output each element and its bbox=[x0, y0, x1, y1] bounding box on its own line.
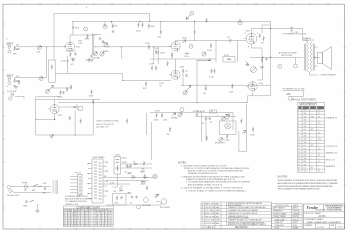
svg-text:R1 0111 68K 10 2 250V: R1 0111 68K 10 2 250V bbox=[64, 213, 87, 215]
T1 left stubs bbox=[88, 164, 92, 199]
component chart header sep bbox=[63, 211, 113, 213]
title bottom cells bbox=[316, 224, 336, 229]
svg-text:PREAMP V1: PREAMP V1 bbox=[326, 117, 338, 120]
component chart title sep bbox=[63, 208, 113, 210]
wire foot switch bbox=[283, 90, 304, 96]
circle can cap bbox=[103, 25, 107, 29]
svg-text:1 OF 1: 1 OF 1 bbox=[337, 226, 344, 228]
diode arrow bbox=[243, 131, 247, 134]
input 2 extra resistor bbox=[18, 80, 20, 85]
node rail junction 2 bbox=[139, 21, 140, 22]
wire vibrato bus bbox=[181, 84, 271, 86]
wire V2 plate to coupling bbox=[176, 41, 246, 42]
network box bbox=[49, 60, 56, 82]
component chart frame bbox=[63, 206, 113, 226]
svg-text:1.4V: 1.4V bbox=[78, 43, 83, 45]
capacitor C7 bass bbox=[102, 40, 104, 43]
capacitor C11 bbox=[196, 113, 198, 116]
boxed network bbox=[223, 57, 235, 63]
bass pot bbox=[100, 52, 104, 56]
resistor R9 bbox=[148, 24, 150, 29]
svg-text:AMP CHASSIS: AMP CHASSIS bbox=[273, 207, 285, 210]
bias box resistor bbox=[116, 196, 118, 201]
wire input 2 bbox=[14, 77, 46, 79]
capacitor C8 coupling bbox=[230, 39, 232, 42]
resistor R25 bbox=[167, 61, 169, 66]
svg-text:SERVICE PERSONNEL ALTER TRAN: SERVICE PERSONNEL ALTER TRANSFORMER SERV… bbox=[278, 185, 334, 188]
tp3 leader arrow bbox=[186, 15, 190, 20]
svg-text:AND BE COME STOCK SUPPLY IF A: AND BE COME STOCK SUPPLY IF ADJUSTMENT B… bbox=[188, 170, 243, 173]
resistor R51 bbox=[143, 177, 148, 179]
resistor R14 grid bbox=[210, 43, 212, 48]
svg-text:220K: 220K bbox=[136, 31, 141, 33]
svg-text:WITH VOLT CONTROLS ATTENUATED: WITH VOLT CONTROLS ATTENUATED VOLTAGE AL… bbox=[184, 167, 249, 170]
revision dates bbox=[205, 203, 220, 225]
svg-text:AA764: AA764 bbox=[293, 207, 298, 210]
svg-text:Fender: Fender bbox=[307, 206, 319, 210]
resistor R56 bbox=[145, 82, 147, 87]
input jack 2 bbox=[7, 77, 10, 80]
svg-text:TREB: TREB bbox=[102, 43, 108, 45]
wire B plus out bbox=[121, 163, 152, 165]
test point power bbox=[137, 205, 141, 209]
svg-text:12-7-64: 12-7-64 bbox=[317, 226, 325, 228]
ground tremolo bbox=[49, 136, 53, 138]
svg-text:TO VIBRATO FOOT SW.: TO VIBRATO FOOT SW. bbox=[283, 87, 306, 90]
svg-text:AND DEFINITIONS OF QUALIFIED P: AND DEFINITIONS OF QUALIFIED PARTS REFER… bbox=[278, 182, 339, 185]
svg-text:13: 13 bbox=[298, 148, 300, 150]
pilot lamp X bbox=[154, 175, 157, 178]
svg-text:NOMINAL OTHERWISE NOTED: NOMINAL OTHERWISE NOTED bbox=[188, 172, 218, 175]
resistor R49 bbox=[146, 186, 148, 191]
AC-DC table rows bbox=[298, 112, 325, 170]
resistor R28 bbox=[286, 93, 291, 95]
wire osc mid bus bbox=[195, 115, 236, 117]
output transformer T2 primary bbox=[307, 42, 309, 72]
svg-text:ALL DC 25,000 O/V: ALL DC 25,000 O/V bbox=[97, 123, 115, 126]
wire arrow stub bbox=[197, 59, 211, 61]
resistor R29 bbox=[60, 90, 62, 95]
capacitor C19 bbox=[185, 74, 187, 77]
wire V1 plate up bbox=[69, 35, 71, 42]
svg-text:100K: 100K bbox=[160, 53, 165, 55]
node rail junction 3 bbox=[194, 21, 195, 22]
svg-text:R3 0113 1M 10 2 250V: R3 0113 1M 10 2 250V bbox=[64, 218, 88, 220]
svg-text:7025 X2: 7025 X2 bbox=[293, 219, 299, 221]
wire tremolo mid leg bbox=[74, 111, 76, 135]
wire long lower bus bbox=[58, 102, 248, 104]
resistor R45 bbox=[127, 172, 132, 174]
svg-text:FUSE: FUSE bbox=[22, 183, 28, 185]
wire tremolo right bbox=[59, 104, 77, 110]
rectifier top cap bbox=[116, 155, 119, 157]
test point 1 bbox=[84, 27, 88, 31]
svg-text:C3 2504 .022 20 600V: C3 2504 .022 20 600V bbox=[89, 218, 113, 220]
svg-text:270K: 270K bbox=[207, 50, 212, 52]
wire tremolo cathode bbox=[36, 114, 55, 120]
svg-text:6V6GT: 6V6GT bbox=[293, 222, 298, 224]
AC-DC header dark band 1 bbox=[298, 106, 301, 109]
bias resistor R47 bbox=[119, 190, 124, 192]
wire screen drop to V3 bbox=[262, 25, 271, 33]
svg-text:VIBRATO OFF: VIBRATO OFF bbox=[65, 203, 79, 206]
wire R12 bbox=[160, 22, 162, 30]
resistor R39 bbox=[206, 136, 208, 141]
svg-text:SPEAKER 8: SPEAKER 8 bbox=[273, 210, 282, 213]
wire foot sw riser bbox=[239, 104, 247, 152]
svg-text:DRAWN: DRAWN bbox=[305, 224, 313, 227]
resistor R7 bbox=[138, 23, 140, 28]
svg-text:16: 16 bbox=[298, 158, 300, 160]
svg-text:120: 120 bbox=[304, 132, 307, 134]
svg-text:100K: 100K bbox=[85, 39, 90, 41]
svg-text:INPUT: INPUT bbox=[7, 76, 14, 78]
svg-text:215: 215 bbox=[304, 161, 307, 163]
svg-text:OSC: OSC bbox=[114, 203, 119, 205]
node junction vib bbox=[270, 57, 271, 58]
svg-text:100K: 100K bbox=[149, 64, 154, 66]
wire B+ riser power bbox=[151, 122, 153, 160]
node OT secondary tap bbox=[314, 57, 316, 59]
resistor R43 bbox=[143, 161, 145, 166]
wire plate node bbox=[70, 34, 97, 36]
pot intensity bbox=[219, 137, 223, 141]
pentode V3 6V6 bbox=[245, 33, 257, 44]
revision descriptions bbox=[228, 202, 266, 226]
wiper arrow osc bbox=[173, 113, 176, 116]
node tremolo cathode bbox=[54, 119, 55, 120]
border tick marks left bbox=[2, 24, 4, 208]
fuse on plate line bbox=[291, 27, 293, 34]
svg-text:350: 350 bbox=[304, 158, 307, 160]
heater pin strip bbox=[78, 175, 83, 196]
svg-text:18: 18 bbox=[298, 164, 300, 166]
revision table rows bbox=[201, 205, 271, 225]
svg-text:R6 0116 22K 10 2 250V: R6 0116 22K 10 2 250V bbox=[64, 225, 88, 227]
revision letters bbox=[202, 203, 204, 225]
bias resistor R48 bbox=[127, 192, 132, 194]
resistor R6 dropping bbox=[112, 23, 114, 28]
heater wire 2 bbox=[107, 180, 148, 182]
capacitor C18 line bbox=[44, 187, 46, 190]
svg-text:REVISIONS: REVISIONS bbox=[235, 227, 248, 229]
svg-text:AND A NOMINAL SIGNAL 170 VOLT: AND A NOMINAL SIGNAL 170 VOLTS bbox=[188, 183, 223, 186]
wire grid to V3 bbox=[216, 41, 237, 63]
speaker frame bbox=[318, 53, 323, 64]
T1 right stubs bbox=[103, 162, 107, 196]
wire R59 bbox=[67, 56, 69, 74]
wire osc riser left bbox=[146, 113, 148, 136]
wire oscillator top bus bbox=[150, 112, 233, 114]
resistor R27 bbox=[232, 84, 234, 89]
triode V2B vibrato bbox=[247, 82, 258, 91]
diode D1 bbox=[155, 194, 160, 198]
resistor R18 grid stopper bbox=[263, 36, 265, 41]
svg-text:PWR TRANS: PWR TRANS bbox=[93, 156, 106, 159]
svg-text:R4 0114 100K 10 2 250: R4 0114 100K 10 2 250 bbox=[64, 221, 88, 223]
treble pot bbox=[104, 43, 108, 47]
component chart cell text bbox=[64, 213, 113, 227]
svg-text:2.1: 2.1 bbox=[318, 132, 320, 134]
svg-text:BASS: BASS bbox=[103, 50, 109, 53]
capacitor C12 bbox=[205, 117, 207, 120]
wire plate resistor top bbox=[72, 22, 74, 36]
resistor R30 bbox=[66, 87, 68, 92]
svg-text:15: 15 bbox=[298, 155, 300, 157]
wire vib plate riser bbox=[248, 22, 271, 103]
svg-text:1.4: 1.4 bbox=[318, 110, 320, 112]
speed pot bbox=[250, 67, 256, 73]
svg-text:JACK: JACK bbox=[141, 183, 147, 186]
wire B+ top rail bbox=[54, 13, 150, 15]
capacitor C2 cathode bypass bbox=[74, 53, 76, 56]
wire R13 bbox=[194, 22, 196, 41]
resistor R40 bbox=[226, 134, 228, 139]
AC-DC table header sep bbox=[298, 108, 325, 110]
svg-text:AUG 4 1964: AUG 4 1964 bbox=[205, 212, 214, 215]
wire tp6 bbox=[295, 58, 297, 65]
node junction dots set bbox=[35, 21, 247, 135]
resistor R15 cathode bbox=[171, 53, 173, 58]
resistor R10 bbox=[148, 45, 150, 50]
power transformer T1 bbox=[92, 159, 103, 203]
test point 5 bbox=[278, 64, 282, 68]
svg-text:1M: 1M bbox=[86, 60, 89, 62]
node tone junction 2 bbox=[121, 46, 122, 47]
wire vib tube bottom bbox=[252, 91, 254, 95]
wire tone to grid V2 bbox=[95, 46, 171, 48]
production table columns bbox=[290, 204, 292, 230]
svg-text:SCHEMATIC RE ISSUE FOR CHANGE: SCHEMATIC RE ISSUE FOR CHANGE bbox=[228, 209, 259, 212]
foot switch jack sleeve bbox=[9, 97, 12, 100]
resistor R41 bbox=[126, 119, 128, 124]
svg-text:SPEED: SPEED bbox=[171, 118, 178, 120]
wire V3 plate to OT bbox=[252, 29, 308, 43]
svg-text:C5 2506 10 20 450V: C5 2506 10 20 450V bbox=[89, 223, 113, 225]
svg-text:NOTES:: NOTES: bbox=[178, 163, 187, 165]
heater wire 3 bbox=[103, 183, 130, 185]
resistor R42 bbox=[133, 163, 138, 165]
svg-text:LTR DATE BY: LTR DATE BY bbox=[202, 226, 215, 229]
wire tp osc bbox=[181, 112, 183, 113]
svg-text:JUN 22 1964: JUN 22 1964 bbox=[205, 207, 215, 209]
wire vib plate top bbox=[257, 58, 263, 81]
svg-text:410: 410 bbox=[318, 139, 321, 141]
svg-text:2A 3AG: 2A 3AG bbox=[293, 227, 300, 230]
svg-text:2. READING NOTES RESISTORS VA: 2. READING NOTES RESISTORS VALUES IN OHM… bbox=[181, 176, 246, 179]
svg-text:FOOT SW: FOOT SW bbox=[7, 91, 16, 93]
small net box bbox=[210, 110, 217, 113]
svg-text:355: 355 bbox=[304, 139, 307, 141]
svg-text:OXFORD: OXFORD bbox=[293, 211, 301, 213]
fuse F1 bbox=[24, 185, 27, 188]
svg-text:340: 340 bbox=[304, 136, 307, 138]
svg-text:RAL: RAL bbox=[216, 215, 219, 218]
capacitor C4 coupling bbox=[104, 24, 106, 27]
AC-DC table columns bbox=[302, 102, 317, 172]
wire vib pot arm bbox=[225, 114, 228, 117]
capacitor C10 bbox=[62, 91, 64, 94]
svg-text:RAL: RAL bbox=[216, 222, 219, 225]
node rail junction 1 bbox=[111, 21, 112, 22]
svg-text:220K: 220K bbox=[224, 55, 229, 57]
wire osc riser right bbox=[232, 113, 234, 131]
speed pot arrow bbox=[246, 62, 249, 66]
resistor R2 68K bbox=[15, 48, 20, 50]
can cap on rail bbox=[238, 20, 242, 24]
production table header bbox=[271, 206, 302, 208]
ground V1 cathode bbox=[71, 59, 75, 61]
AC-DC header dark band 2 bbox=[303, 106, 309, 109]
svg-text:5: 5 bbox=[298, 123, 299, 125]
ground switch bbox=[30, 200, 35, 202]
rectifier internals bbox=[116, 160, 120, 172]
production table rows bbox=[271, 209, 302, 226]
capacitor C6 treble bbox=[99, 37, 101, 40]
node speed junction bbox=[262, 57, 263, 58]
wire V3 cathode bbox=[252, 44, 263, 57]
heater wire 1 bbox=[107, 177, 153, 179]
svg-text:SW: SW bbox=[43, 183, 46, 185]
resistor R19 cathode bbox=[261, 58, 263, 63]
svg-text:1M: 1M bbox=[16, 44, 19, 46]
svg-text:6.3: 6.3 bbox=[304, 145, 306, 147]
svg-text:160: 160 bbox=[304, 152, 307, 154]
svg-text:120: 120 bbox=[304, 171, 307, 173]
resistor R60 bbox=[88, 58, 90, 63]
svg-text:OUTPUT V3: OUTPUT V3 bbox=[326, 146, 338, 148]
svg-text:450V: 450V bbox=[122, 162, 127, 164]
wire speaker lead bbox=[315, 57, 321, 59]
svg-text:10M: 10M bbox=[229, 92, 233, 94]
lamp box bbox=[220, 121, 237, 135]
wire AC hot bbox=[14, 186, 51, 188]
svg-text:SEP 18 1964: SEP 18 1964 bbox=[205, 216, 215, 218]
resistor R37 bbox=[228, 113, 230, 118]
jack 2 circle bbox=[8, 81, 11, 84]
svg-text:VIBRATO V2: VIBRATO V2 bbox=[326, 152, 338, 155]
capacitor C15 filter bbox=[129, 165, 131, 168]
resistor R11 bbox=[157, 50, 159, 55]
svg-text:TUBE RECT: TUBE RECT bbox=[275, 225, 285, 227]
AC-DC legend arrow bbox=[292, 99, 295, 101]
test point 2 bbox=[189, 44, 193, 48]
foot switch jack bbox=[10, 93, 13, 96]
svg-text:ADDED EXT FOOTSWITCH CHANGE T: ADDED EXT FOOTSWITCH CHANGE TO PART 2 bbox=[228, 223, 266, 226]
svg-text:INTENSITY: INTENSITY bbox=[215, 143, 226, 145]
resistor R54 bbox=[214, 69, 216, 74]
box small net bbox=[79, 106, 83, 110]
svg-text:6: 6 bbox=[298, 126, 299, 128]
speaker cone bbox=[323, 47, 332, 70]
svg-text:VOLTAGES READ WITH: VOLTAGES READ WITH bbox=[65, 195, 88, 198]
svg-text:1M: 1M bbox=[167, 134, 170, 136]
svg-text:170: 170 bbox=[304, 148, 307, 150]
wire tremolo top bbox=[36, 99, 100, 101]
svg-text:345: 345 bbox=[304, 155, 307, 157]
resistor R23 bbox=[151, 66, 153, 71]
production table frame bbox=[271, 204, 302, 230]
resistor R35 bbox=[156, 113, 158, 118]
resistor R38 bbox=[241, 118, 243, 123]
wire bright channel bbox=[55, 74, 171, 81]
resistor R55 bbox=[155, 50, 157, 55]
can cap mark bbox=[239, 19, 241, 23]
svg-text:RAL: RAL bbox=[216, 212, 219, 215]
wire channel tie line bbox=[45, 47, 47, 78]
svg-text:JPW: JPW bbox=[216, 210, 220, 212]
svg-text:5. CIRCUIT BOARD CP TUBES: 5. CIRCUIT BOARD CP TUBES SOCKETS B SERV… bbox=[186, 189, 247, 192]
node tremolo bottom bbox=[52, 134, 53, 135]
svg-text:THIS CONSUMER OF THE OPERATING: THIS CONSUMER OF THE OPERATING INSTRUCTI… bbox=[278, 187, 321, 190]
AC-DC table frame bbox=[298, 102, 325, 172]
PT pin dots right bbox=[107, 162, 108, 192]
svg-text:CHANGED R19 AND C15 TO NEW VAL: CHANGED R19 AND C15 TO NEW VALUES bbox=[228, 219, 263, 222]
resistor R36 bbox=[161, 113, 163, 118]
wiper arrow V1B grid bbox=[183, 40, 186, 43]
svg-text:4: 4 bbox=[298, 120, 299, 122]
svg-text:4.7M: 4.7M bbox=[209, 77, 214, 79]
resistor R26 bbox=[205, 86, 207, 91]
resistor R5 bbox=[87, 34, 89, 39]
ground V3 cathode bbox=[260, 67, 264, 69]
wire R52 bbox=[182, 74, 184, 86]
resistor R24 bbox=[155, 66, 157, 71]
pot hum balance bbox=[144, 198, 149, 203]
svg-text:2: 2 bbox=[298, 113, 299, 115]
resistor R61 bbox=[70, 85, 72, 90]
volume pot 1 bbox=[37, 45, 41, 49]
svg-text:C1 2502 .022 20 600V: C1 2502 .022 20 600V bbox=[89, 213, 113, 215]
svg-text:SW: SW bbox=[32, 190, 35, 192]
tone stack frame bbox=[93, 33, 102, 55]
svg-text:CHANGED C FROM CHART TWO NEW V: CHANGED C FROM CHART TWO NEW VALUES bbox=[228, 206, 266, 209]
resistor R63 bbox=[169, 127, 171, 132]
svg-text:115V AC 60CY: 115V AC 60CY bbox=[7, 194, 21, 197]
capacitor C5 filter bbox=[112, 30, 114, 33]
T1 winding marks left bbox=[94, 162, 97, 198]
svg-text:125A35A: 125A35A bbox=[293, 212, 301, 215]
resistor R20 68K bbox=[14, 78, 16, 83]
node tone drop bbox=[153, 46, 154, 47]
wire tremolo left leg bbox=[35, 97, 37, 135]
component chart rows bbox=[63, 215, 113, 225]
svg-text:NO SYM OHM PCT RAT NO SYM: NO SYM OHM PCT RAT NO SYM MFD PCT RAT bbox=[64, 210, 114, 213]
resistor R62 bbox=[252, 127, 254, 132]
wire tremolo upper bbox=[36, 96, 60, 98]
rectifier V4 bbox=[114, 157, 121, 174]
svg-text:340: 340 bbox=[311, 116, 314, 118]
svg-text:THIS SCHEMATIC IS DESIGNED FOR: THIS SCHEMATIC IS DESIGNED FOR USE BY QU… bbox=[278, 179, 339, 182]
pot speed lower bbox=[45, 89, 49, 93]
svg-text:DATE: DATE bbox=[293, 204, 299, 207]
resistor R13 bbox=[194, 30, 196, 35]
resistor R58 on rail bbox=[206, 18, 208, 23]
svg-text:HUM BAL: HUM BAL bbox=[142, 204, 152, 207]
svg-text:1.4: 1.4 bbox=[318, 148, 320, 150]
svg-text:RAL: RAL bbox=[216, 206, 219, 209]
svg-text:RECT. V4: RECT. V4 bbox=[326, 160, 336, 162]
resistor R59 bbox=[67, 59, 69, 64]
svg-text:21: 21 bbox=[318, 155, 320, 157]
svg-text:MAY 6 1964: MAY 6 1964 bbox=[205, 203, 214, 206]
wire pot arm bbox=[49, 86, 54, 90]
PT pin dots left bbox=[88, 163, 89, 194]
svg-text:325: 325 bbox=[304, 164, 307, 166]
svg-text:10M: 10M bbox=[163, 119, 167, 121]
svg-text:14: 14 bbox=[298, 152, 300, 154]
revision footer cells bbox=[209, 225, 221, 228]
